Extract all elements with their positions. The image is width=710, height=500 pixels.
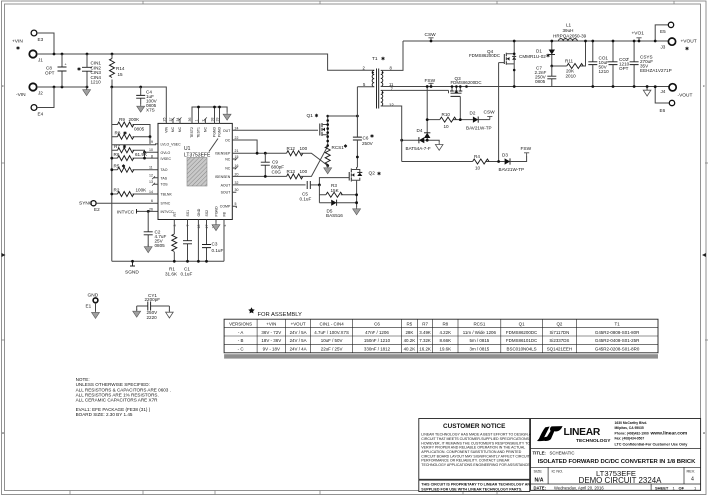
svg-text:CMMR1U-02: CMMR1U-02 — [519, 54, 546, 59]
svg-text:R5: R5 — [114, 164, 120, 169]
table assembly versions — [224, 319, 658, 358]
svg-text:NC: NC — [225, 158, 231, 162]
svg-text:BSC010N04LS: BSC010N04LS — [507, 347, 537, 352]
resistor R1 — [165, 220, 178, 277]
svg-text:TEST2: TEST2 — [190, 127, 194, 138]
wire Q4 gate drive column — [498, 63, 500, 162]
svg-text:OPT: OPT — [45, 71, 55, 76]
svg-text:7: 7 — [186, 225, 190, 227]
svg-text:a: a — [703, 431, 705, 435]
transistor Q4 — [469, 49, 516, 65]
wire E4 to J2 rail — [37, 87, 54, 108]
capacitor C7 — [535, 66, 557, 87]
diode D1 — [519, 40, 555, 68]
wire SGND rail — [112, 260, 224, 262]
wire SYNC to pin 6 — [96, 202, 158, 204]
wire ISENSEP pin 21 — [232, 152, 286, 154]
svg-text:R12: R12 — [287, 146, 296, 151]
svg-text:0805: 0805 — [155, 243, 166, 248]
capacitor CO2 — [609, 40, 630, 88]
svg-text:9: 9 — [151, 140, 153, 144]
svg-text:LINEAR: LINEAR — [564, 427, 601, 438]
svg-text:1: 1 — [195, 120, 199, 122]
svg-text:SYNC: SYNC — [79, 201, 93, 207]
svg-text:- B: - B — [238, 338, 244, 343]
svg-text:BAS516: BAS516 — [326, 213, 343, 218]
svg-text:21: 21 — [235, 149, 239, 153]
svg-text:R6: R6 — [114, 152, 120, 157]
U1 top pin numbers rotated — [162, 118, 219, 122]
svg-text:0.1uF: 0.1uF — [300, 196, 312, 201]
svg-text:32: 32 — [235, 181, 239, 185]
svg-text:X7S: X7S — [146, 108, 155, 113]
svg-text:IC NO.: IC NO. — [552, 469, 564, 473]
svg-text:CSW: CSW — [484, 110, 496, 116]
svg-text:ISOLATED FORWARD DC/DC CONVERT: ISOLATED FORWARD DC/DC CONVERTER IN 1/8 … — [538, 459, 697, 465]
ground primary under C2 — [144, 245, 152, 253]
svg-text:36V - 72V: 36V - 72V — [261, 330, 281, 335]
svg-text:OPT: OPT — [619, 66, 629, 71]
svg-text:6: 6 — [151, 199, 153, 203]
capacitor C9 — [261, 153, 284, 176]
resistor R8 — [112, 131, 152, 140]
svg-text:R10: R10 — [442, 112, 451, 117]
wire Q1 gate from OUT pin 24 — [232, 129, 318, 131]
ground primary under C4 — [137, 104, 145, 112]
terminal E2 SYNC — [79, 201, 100, 212]
svg-text:LVLO_VSEC: LVLO_VSEC — [161, 142, 182, 146]
note FOR ASSEMBLY — [248, 307, 302, 318]
svg-text:TECHNOLOGY APPLICATIONS ENGINE: TECHNOLOGY APPLICATIONS ENGINEERING FOR … — [421, 463, 530, 467]
svg-text:250V: 250V — [362, 141, 374, 146]
svg-text:E6: E6 — [660, 108, 666, 113]
svg-text:Phone: (408)432-1900: Phone: (408)432-1900 — [615, 431, 649, 435]
resistor R5 — [110, 164, 158, 173]
svg-text:2220: 2220 — [147, 315, 158, 320]
svg-text:DATE:: DATE: — [534, 485, 546, 490]
U1 bottom pin numbers rotated — [173, 225, 227, 229]
svg-text:G45R2-0408-S01-25R: G45R2-0408-S01-25R — [595, 338, 639, 343]
svg-text:PGND: PGND — [218, 127, 222, 138]
svg-text:E5: E5 — [660, 29, 666, 34]
capacitor CO1 — [588, 40, 609, 88]
testpoint +VO1 — [632, 31, 645, 43]
svg-text:R7: R7 — [422, 321, 428, 326]
wire R10 node column — [426, 87, 428, 134]
svg-text:24V / 5A: 24V / 5A — [290, 330, 307, 335]
svg-text:Fax: (408)434-0507: Fax: (408)434-0507 — [615, 437, 645, 441]
svg-text:J3: J3 — [661, 45, 666, 50]
svg-text:2200pF: 2200pF — [145, 297, 161, 302]
svg-text:PGND: PGND — [215, 206, 219, 217]
svg-text:4: 4 — [691, 477, 694, 483]
svg-text:ISENSEP: ISENSEP — [215, 152, 231, 156]
ground primary under Q2 — [353, 207, 361, 215]
svg-text:TITLE:: TITLE: — [533, 451, 547, 456]
svg-text:R5: R5 — [407, 321, 413, 326]
svg-text:R14: R14 — [116, 66, 125, 71]
svg-text:22uF / 25V: 22uF / 25V — [321, 347, 343, 352]
capacitor C1 — [181, 220, 193, 277]
svg-text:SS2: SS2 — [205, 210, 209, 217]
wire Q4 drain-source — [513, 41, 515, 87]
wire Q1 drain to primary leg — [328, 115, 358, 117]
svg-text:3m / 0815: 3m / 0815 — [470, 347, 490, 352]
resistor R11 — [552, 40, 587, 79]
IC U1 LT3753EFE body — [158, 123, 232, 219]
svg-text:FSW: FSW — [425, 78, 436, 84]
svg-text:38: 38 — [211, 118, 215, 122]
wire T1 pin11 secondary rail — [381, 86, 656, 88]
ground primary under RCS1 — [324, 166, 332, 174]
svg-text:30: 30 — [235, 188, 239, 192]
svg-text:VERSIONS: VERSIONS — [229, 321, 252, 326]
svg-text:TECHNOLOGY: TECHNOLOGY — [576, 438, 611, 444]
svg-text:R4: R4 — [474, 154, 480, 159]
wire ISENSEN pin 20 — [232, 175, 286, 177]
resistor R9 — [112, 117, 150, 137]
svg-text:Q2: Q2 — [556, 321, 562, 326]
svg-text:7.32K: 7.32K — [419, 338, 431, 343]
svg-text:FDMS86101DC: FDMS86101DC — [506, 338, 538, 343]
testpoint FSW rail — [425, 78, 436, 88]
diode BAT54A-7-F — [400, 137, 439, 151]
ground secondary at BAT54A — [435, 142, 443, 150]
wire T1 pin7 lead — [381, 89, 449, 91]
svg-text:SCHEMATIC: SCHEMATIC — [550, 451, 575, 456]
ground primary PGND pin 19 — [215, 220, 217, 223]
svg-text:FOR ASSEMBLY: FOR ASSEMBLY — [258, 312, 302, 318]
wire left divider rail — [111, 87, 113, 261]
wire T1 pin8 to CSW rail — [381, 41, 403, 70]
capacitor CY1 — [137, 293, 170, 320]
svg-text:GND: GND — [197, 208, 201, 216]
wire E3 to J1 rail — [37, 33, 54, 54]
svg-text:24V / 4A: 24V / 4A — [290, 347, 307, 352]
ground primary under CIN — [83, 88, 91, 96]
svg-text:SHEET: SHEET — [655, 485, 669, 490]
svg-text:SQ1421EEH: SQ1421EEH — [547, 347, 572, 352]
svg-text:0.1uF: 0.1uF — [181, 272, 193, 277]
svg-text:10: 10 — [444, 124, 450, 129]
svg-text:SYNC: SYNC — [161, 202, 171, 206]
svg-text:-VOUT: -VOUT — [678, 93, 693, 99]
svg-text:G45R2-0808-S01-80R: G45R2-0808-S01-80R — [595, 330, 639, 335]
svg-text:R11: R11 — [565, 59, 574, 64]
capacitor C2 — [144, 211, 167, 248]
wire R12 to RCS1 bottom — [300, 153, 328, 165]
svg-text:FDMS86200DC: FDMS86200DC — [506, 330, 538, 335]
svg-text:R8: R8 — [442, 321, 448, 326]
note block — [76, 377, 171, 417]
testpoint CSW rail — [425, 32, 437, 42]
svg-text:AOUT: AOUT — [221, 183, 232, 187]
terminal E6 — [660, 100, 675, 113]
svg-text:R7: R7 — [114, 144, 120, 149]
svg-text:+VO1: +VO1 — [632, 31, 645, 37]
title block — [531, 419, 701, 491]
svg-text:- C: - C — [238, 347, 245, 352]
svg-text:HRPQA2050-39: HRPQA2050-39 — [553, 34, 587, 39]
svg-text:a: a — [2, 431, 4, 435]
junction dots top rail — [53, 53, 114, 56]
svg-text:J4: J4 — [661, 89, 666, 94]
svg-text:+VOUT: +VOUT — [291, 321, 306, 326]
terminal E3 — [31, 30, 43, 42]
svg-text:20: 20 — [235, 172, 239, 176]
svg-text:D1: D1 — [536, 49, 542, 54]
resistor R13 — [287, 169, 308, 179]
svg-text:T1: T1 — [372, 56, 378, 62]
svg-text:CSW: CSW — [425, 32, 437, 38]
customer notice box — [419, 419, 532, 480]
svg-text:RCS1: RCS1 — [332, 145, 345, 150]
svg-text:COMP: COMP — [220, 205, 231, 209]
svg-text:www.linear.com: www.linear.com — [650, 431, 688, 437]
wire R8 node to pin 9 — [112, 137, 158, 145]
svg-text:T1: T1 — [615, 321, 621, 326]
svg-text:BOARD SIZE: 2.30 BY 1.45: BOARD SIZE: 2.30 BY 1.45 — [76, 412, 133, 417]
svg-text:ALL CERAMIC CAPACITORS ARE X7R: ALL CERAMIC CAPACITORS ARE X7R — [76, 397, 159, 402]
svg-text:Q1: Q1 — [307, 113, 314, 119]
U1 right pin numbers — [235, 126, 239, 206]
U1 pins 12 13 no-connect stubs — [154, 178, 159, 184]
svg-text:TAS: TAS — [161, 176, 168, 180]
svg-text:BAT54A-7-F: BAT54A-7-F — [406, 146, 431, 151]
svg-text:EEHZA1V271P: EEHZA1V271P — [640, 68, 672, 73]
svg-text:9V - 18V: 9V - 18V — [263, 347, 280, 352]
wire AOUT pin 32 — [232, 184, 305, 186]
svg-text:100K: 100K — [136, 188, 148, 193]
svg-text:NC: NC — [203, 127, 207, 133]
resistor R2 — [110, 188, 158, 197]
svg-text:11: 11 — [149, 166, 153, 170]
U1 top pin names rotated — [164, 127, 221, 138]
svg-text:LT3753EFE: LT3753EFE — [184, 153, 211, 159]
resistor RCS1 — [325, 144, 347, 167]
transistor Q3 — [449, 76, 482, 120]
svg-text:13: 13 — [149, 180, 153, 184]
svg-text:REV.: REV. — [687, 469, 696, 473]
svg-text:E4: E4 — [38, 112, 44, 117]
svg-text:+: + — [65, 63, 67, 67]
svg-text:100: 100 — [300, 146, 308, 151]
svg-text:N/A: N/A — [535, 478, 544, 484]
svg-text:OVLO: OVLO — [161, 151, 171, 155]
resistor R7 — [112, 144, 158, 154]
svg-text:17: 17 — [205, 225, 209, 229]
svg-text:BAV21W-TP: BAV21W-TP — [499, 167, 525, 172]
svg-text:E3: E3 — [38, 37, 44, 42]
svg-text:16.2K: 16.2K — [419, 347, 431, 352]
svg-text:25: 25 — [162, 118, 166, 122]
diode D3 — [499, 153, 527, 173]
svg-text:-VIN: -VIN — [16, 92, 26, 98]
svg-text:3: 3 — [173, 225, 177, 227]
svg-text:VIN: VIN — [164, 127, 168, 133]
svg-text:10: 10 — [475, 166, 481, 171]
capacitor C3 — [202, 220, 223, 262]
svg-text:47nF / 1206: 47nF / 1206 — [365, 330, 389, 335]
svg-text:3.49K: 3.49K — [419, 330, 431, 335]
svg-text:1210: 1210 — [599, 69, 610, 74]
terminal J4 — [654, 84, 676, 103]
svg-text:18V - 36V: 18V - 36V — [261, 338, 281, 343]
svg-text:14: 14 — [149, 190, 153, 194]
svg-text:RCS1: RCS1 — [473, 321, 485, 326]
svg-text:Q2: Q2 — [369, 171, 376, 177]
svg-text:SOUT: SOUT — [221, 191, 232, 195]
logo LT mark — [537, 426, 563, 441]
ground primary at E1 — [92, 310, 100, 318]
terminal J2 — [29, 83, 43, 95]
svg-text:15K: 15K — [331, 188, 340, 193]
svg-text:E2: E2 — [94, 207, 100, 212]
svg-text:TEST1: TEST1 — [197, 127, 201, 138]
svg-text:40.2K: 40.2K — [404, 338, 416, 343]
svg-text:22: 22 — [235, 136, 239, 140]
svg-text:1630 McCarthy Blvd.: 1630 McCarthy Blvd. — [615, 421, 648, 425]
svg-text:5: 5 — [235, 202, 237, 206]
transistor Q1 — [307, 113, 328, 136]
svg-text:24V / 5A: 24V / 5A — [290, 338, 307, 343]
svg-text:0.1uF: 0.1uF — [212, 248, 224, 253]
U1 right NC and stub pins — [232, 159, 236, 208]
svg-text:4.22K: 4.22K — [439, 330, 451, 335]
wire -VIN rail — [37, 86, 87, 88]
svg-text:ISENSEN: ISENSEN — [215, 175, 231, 179]
capacitor C4 — [136, 87, 157, 113]
svg-text:LTC Confidential-For Customer: LTC Confidential-For Customer Use Only — [615, 443, 689, 447]
svg-text:28K: 28K — [405, 330, 413, 335]
svg-text:10: 10 — [149, 148, 153, 152]
svg-text:E1: E1 — [86, 304, 92, 309]
ground primary at CY1 left — [133, 309, 141, 317]
wire GND pin 18 — [197, 220, 199, 262]
svg-text:NC: NC — [171, 127, 175, 133]
svg-text:SIZE: SIZE — [534, 469, 543, 473]
svg-text:BAV21W-TP: BAV21W-TP — [466, 126, 492, 131]
svg-text:8: 8 — [151, 155, 153, 159]
svg-text:12: 12 — [389, 103, 394, 108]
svg-text:+VIN: +VIN — [266, 321, 276, 326]
capacitor CSYS — [627, 40, 672, 88]
svg-text:31.6K: 31.6K — [165, 272, 178, 277]
svg-text:+VIN: +VIN — [12, 39, 23, 45]
svg-text:TAO: TAO — [161, 168, 168, 172]
inductor L1 — [553, 23, 587, 42]
node +VOUT label — [681, 39, 697, 51]
svg-text:8.66K: 8.66K — [439, 338, 451, 343]
resistor R3 — [319, 183, 356, 197]
svg-text:TBLNK: TBLNK — [161, 193, 173, 197]
wire +VIN top rail — [37, 54, 374, 70]
svg-text:39uH: 39uH — [563, 28, 574, 33]
svg-text:OC: OC — [225, 139, 231, 143]
wire Q2 gate to C5 node — [319, 178, 349, 185]
wire TEST1 TEST2 PGND tie — [192, 107, 227, 123]
svg-text:39: 39 — [216, 118, 220, 122]
svg-text:19.6K: 19.6K — [439, 347, 451, 352]
svg-text:J1: J1 — [38, 58, 43, 63]
svg-text:10uF / 50V: 10uF / 50V — [321, 338, 343, 343]
svg-text:SGND: SGND — [125, 270, 139, 276]
resistor R10 — [426, 112, 473, 129]
svg-text:+: + — [627, 57, 629, 61]
wire Q1 drain-source column — [327, 116, 329, 146]
svg-text:G45R2-0208-S01-8R0: G45R2-0208-S01-8R0 — [595, 347, 640, 352]
svg-text:R9: R9 — [119, 117, 125, 122]
wire INTVCC to pin 26 — [139, 210, 158, 212]
U1 left pin numbers — [149, 140, 153, 212]
svg-text:24: 24 — [235, 126, 239, 130]
svg-text:OUT: OUT — [223, 129, 231, 133]
testpoint CSW at D2 — [484, 110, 496, 120]
svg-text:Si7117DN: Si7117DN — [549, 330, 569, 335]
svg-text:IVSEC: IVSEC — [161, 157, 172, 161]
capacitor C8 — [45, 54, 67, 87]
wire FB pin 4 to SGND rail — [223, 220, 225, 262]
capacitor CIN1 CIN2 CIN3 CIN4 — [78, 54, 102, 87]
svg-text:12: 12 — [149, 174, 153, 178]
diode D5 — [319, 200, 356, 218]
svg-text:15: 15 — [118, 72, 124, 77]
svg-text:100: 100 — [300, 169, 308, 174]
terminal J1 — [29, 50, 43, 62]
svg-text:36: 36 — [188, 118, 192, 122]
svg-text:U1: U1 — [184, 146, 191, 152]
resistor R6 — [110, 152, 158, 161]
svg-text:C3: C3 — [212, 242, 218, 247]
svg-text:SS1: SS1 — [186, 210, 190, 217]
svg-text:2010: 2010 — [566, 74, 577, 79]
svg-text:61.9K: 61.9K — [135, 152, 148, 157]
svg-text:CIN1 - CIN4: CIN1 - CIN4 — [320, 321, 345, 326]
wire T1 pin5 to primary leg — [357, 86, 374, 88]
terminal E1 GND — [86, 293, 99, 312]
svg-text:OF: OF — [679, 485, 685, 490]
diode D2 — [466, 111, 492, 131]
svg-text:1210: 1210 — [91, 80, 102, 85]
node SGND — [125, 261, 139, 275]
terminal E4 — [31, 105, 43, 117]
capacitor C6 — [353, 134, 374, 167]
svg-text:DEMO CIRCUIT 2324A: DEMO CIRCUIT 2324A — [579, 476, 662, 485]
svg-text:FDMS86200DC: FDMS86200DC — [469, 53, 500, 58]
wire OC pin 22 — [232, 140, 257, 153]
wire C5 node down to R3 D5 — [318, 185, 320, 203]
ground secondary output — [643, 85, 651, 96]
svg-text:0805: 0805 — [535, 79, 546, 84]
svg-text:FB: FB — [223, 211, 227, 216]
svg-text:150nF / 1210: 150nF / 1210 — [364, 338, 391, 343]
svg-text:D2: D2 — [470, 111, 476, 116]
svg-text:C0G: C0G — [272, 170, 282, 175]
ground secondary at CY1 right — [166, 310, 174, 318]
svg-text:PGND: PGND — [213, 127, 217, 138]
U1 top NC stubs — [173, 119, 205, 124]
svg-text:5m / 0815: 5m / 0815 — [470, 338, 490, 343]
U1 bottom pin names rotated — [173, 206, 227, 217]
svg-text:CUSTOMER NOTICE: CUSTOMER NOTICE — [443, 423, 506, 430]
svg-text:R2: R2 — [114, 188, 120, 193]
svg-text:NC: NC — [178, 127, 182, 133]
svg-text:J2: J2 — [38, 91, 43, 96]
wire VIN filter node — [112, 87, 167, 123]
wire R13 to RCS1 top — [300, 146, 328, 176]
svg-text:- A: - A — [238, 330, 243, 335]
resistor R12 — [287, 146, 308, 156]
